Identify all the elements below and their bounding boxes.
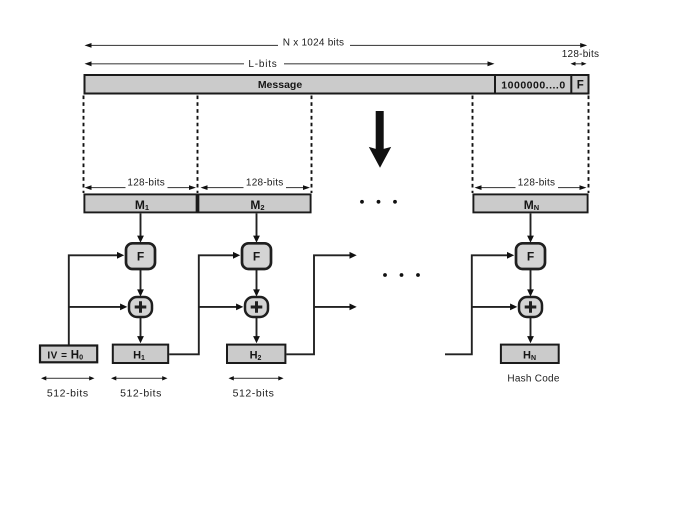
feed wire IV to F1 — [69, 255, 118, 344]
dimension arrow: L-bits — [85, 61, 495, 66]
dimension arrow: 512-bits (under H1) — [111, 376, 168, 380]
svg-text:512-bits: 512-bits — [47, 387, 89, 399]
wire M2 to F2 — [253, 213, 260, 242]
dimension arrow: 128-bits (block N) — [475, 185, 587, 190]
feed wire into FN from previous round — [445, 255, 508, 354]
message bar — [85, 75, 589, 94]
svg-text:Hash Code: Hash Code — [507, 373, 559, 384]
ellipsis dots (round row) — [383, 273, 420, 277]
feed wire IV to XOR1 — [69, 306, 121, 308]
feed wire into XORN — [472, 306, 511, 308]
feed wire H2 onward, upper branch — [286, 255, 350, 354]
svg-text:128-bits: 128-bits — [562, 49, 600, 60]
svg-text:128-bits: 128-bits — [127, 177, 165, 188]
svg-text:N x 1024 bits: N x 1024 bits — [283, 38, 345, 49]
svg-text:F: F — [137, 249, 144, 263]
register HN — [501, 345, 559, 363]
divider: padding | F — [570, 74, 572, 95]
block MN — [473, 194, 587, 212]
svg-text:128-bits: 128-bits — [518, 177, 556, 188]
svg-text:IV = H0: IV = H0 — [47, 350, 83, 362]
svg-text:L-bits: L-bits — [248, 59, 277, 70]
dimension arrow: 128-bits (block 2) — [201, 185, 311, 190]
register IV = H0 — [40, 346, 97, 363]
svg-text:512-bits: 512-bits — [120, 387, 162, 399]
wire XOR2 to H2 — [253, 318, 260, 343]
XOR adder 2 — [245, 297, 268, 317]
dashed block dividers — [84, 96, 589, 194]
compression function FN — [516, 243, 545, 269]
wire MN to FN — [527, 213, 534, 242]
svg-text:F: F — [577, 80, 584, 92]
dimension arrow: 512-bits (under H2) — [229, 376, 284, 380]
dimension arrow: 128-bits (block 1) — [85, 185, 197, 190]
svg-text:F: F — [527, 249, 534, 263]
wire XORN to HN — [527, 318, 534, 343]
dimension arrow: N x 1024 bits — [85, 43, 588, 48]
wire M1 to F1 — [137, 213, 144, 242]
block M1 — [84, 194, 196, 212]
svg-text:Message: Message — [258, 79, 303, 91]
svg-text:512-bits: 512-bits — [233, 387, 275, 399]
XOR adder N — [519, 297, 542, 317]
ellipsis dots (M row) — [360, 200, 397, 204]
svg-text:F: F — [253, 249, 260, 263]
svg-text:128-bits: 128-bits — [246, 177, 284, 188]
wire XOR1 to H1 — [137, 318, 144, 343]
wire FN to XORN — [527, 270, 534, 297]
feed wire H1 to XOR2 — [199, 306, 237, 308]
register H2 — [227, 345, 285, 363]
big black down arrow — [369, 111, 391, 168]
wire F1 to XOR1 — [137, 270, 144, 297]
compression function F2 — [242, 243, 271, 269]
svg-text:1000000....0: 1000000....0 — [501, 79, 565, 91]
divider: message | padding — [494, 74, 496, 95]
feed wire H1 to F2 — [169, 255, 234, 354]
XOR adder 1 — [129, 297, 152, 317]
block M2 — [198, 194, 310, 212]
wire F2 to XOR2 — [253, 270, 260, 297]
register H1 — [113, 345, 168, 363]
compression function F1 — [126, 243, 155, 269]
dimension arrow: 128-bits (top right) — [571, 62, 587, 66]
feed wire H2 onward, lower branch — [314, 306, 351, 308]
dimension arrow: 512-bits (under IV) — [41, 376, 95, 380]
